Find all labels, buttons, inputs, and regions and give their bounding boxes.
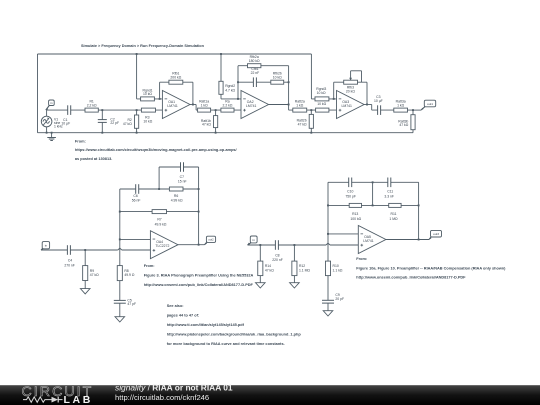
svg-text:10 kΩ: 10 kΩ	[143, 92, 152, 96]
svg-text:out1: out1	[427, 102, 433, 106]
svg-text:1.1 MΩ: 1.1 MΩ	[299, 268, 310, 272]
svg-text:10 kΩ: 10 kΩ	[317, 102, 326, 106]
svg-text:for more background to RIAA cu: for more background to RIAA curve and re…	[167, 342, 285, 346]
svg-text:47 kΩ: 47 kΩ	[123, 122, 132, 126]
svg-text:1 kΩ: 1 kΩ	[201, 103, 209, 107]
svg-text:signality / RIAA or not RIAA 0: signality / RIAA or not RIAA 01	[115, 383, 233, 393]
svg-text:C11: C11	[387, 190, 393, 194]
svg-text:3.3 nF: 3.3 nF	[384, 195, 394, 199]
svg-text:10 kΩ: 10 kΩ	[317, 91, 326, 95]
svg-text:200 kΩ: 200 kΩ	[170, 75, 181, 79]
svg-text:http://www.onsemi.com/pub_link: http://www.onsemi.com/pub_link/Collatera…	[356, 276, 466, 280]
svg-text:R11: R11	[391, 212, 397, 216]
svg-text:Figure 3. RIAA Phonograph Prea: Figure 3. RIAA Phonograph Preamplifier U…	[144, 273, 254, 277]
svg-text:R7: R7	[157, 217, 161, 221]
svg-text:Figure 10a. Figure 10. Preampl: Figure 10a. Figure 10. Preamplifier -- R…	[356, 266, 506, 270]
svg-text:TLC2272: TLC2272	[155, 244, 169, 248]
svg-text:49.9 Ω: 49.9 Ω	[124, 273, 135, 277]
svg-text:in: in	[50, 101, 53, 105]
svg-text:LM741: LM741	[342, 104, 352, 108]
svg-text:47 pF: 47 pF	[127, 302, 136, 306]
svg-text:270 nF: 270 nF	[64, 263, 75, 267]
svg-text:56 nF: 56 nF	[132, 199, 141, 203]
svg-text:10 kΩ: 10 kΩ	[273, 75, 282, 79]
svg-text:4.7 kΩ: 4.7 kΩ	[225, 88, 235, 92]
svg-text:1 MΩ: 1 MΩ	[389, 217, 398, 221]
svg-text:1 kΩ: 1 kΩ	[397, 103, 405, 107]
svg-text:180 kΩ: 180 kΩ	[249, 59, 260, 63]
svg-text:http://circuitlab.com/cknf246: http://circuitlab.com/cknf246	[115, 393, 209, 402]
svg-text:4.99 kΩ: 4.99 kΩ	[171, 199, 183, 203]
svg-text:LM741: LM741	[167, 104, 177, 108]
svg-text:LAB: LAB	[64, 394, 93, 405]
svg-text:22 pF: 22 pF	[110, 121, 119, 125]
svg-text:2.2 kΩ: 2.2 kΩ	[223, 103, 233, 107]
svg-text:R13: R13	[352, 212, 358, 216]
svg-text:From:: From:	[75, 139, 86, 143]
svg-text:LM741: LM741	[246, 104, 256, 108]
svg-text:47 kΩ: 47 kΩ	[202, 123, 211, 127]
svg-text:LM741: LM741	[363, 239, 373, 243]
svg-text:C6: C6	[133, 194, 137, 198]
svg-text:C7: C7	[180, 175, 184, 179]
svg-text:From:: From:	[144, 264, 155, 268]
svg-text:1.1 kΩ: 1.1 kΩ	[333, 268, 343, 272]
svg-text:C10: C10	[347, 190, 353, 194]
svg-text:15 nF: 15 nF	[178, 179, 187, 183]
svg-text:220 nF: 220 nF	[272, 258, 283, 262]
svg-text:http://www.onsemi.com/pub_link: http://www.onsemi.com/pub_link/Collatera…	[144, 283, 254, 287]
svg-text:750 pF: 750 pF	[345, 195, 356, 199]
svg-text:2.2 kΩ: 2.2 kΩ	[87, 103, 97, 107]
svg-text:1 kΩ: 1 kΩ	[296, 103, 304, 107]
svg-text:22 nF: 22 nF	[251, 71, 260, 75]
svg-text:R6: R6	[174, 194, 178, 198]
svg-text:http://www.ti.com/lit/an/slyt1: http://www.ti.com/lit/an/slyt145/slyt145…	[167, 323, 245, 327]
svg-text:47 kΩ: 47 kΩ	[399, 123, 408, 127]
svg-text:47 kΩ: 47 kΩ	[265, 268, 274, 272]
svg-text:Simulate > Frequency Domain >: Simulate > Frequency Domain > Run Freque…	[81, 44, 205, 48]
svg-text:20 pF: 20 pF	[335, 297, 344, 301]
svg-text:10 µF: 10 µF	[61, 121, 70, 125]
svg-text:in: in	[45, 244, 48, 248]
svg-text:47 kΩ: 47 kΩ	[90, 273, 99, 277]
svg-text:See also:: See also:	[167, 304, 184, 308]
svg-text:49.9 kΩ: 49.9 kΩ	[155, 222, 167, 226]
svg-text:in: in	[252, 238, 255, 242]
svg-text:10 µF: 10 µF	[374, 99, 383, 103]
svg-text:From:: From:	[356, 257, 367, 261]
svg-text:out3: out3	[433, 232, 439, 236]
svg-text:C8: C8	[275, 253, 279, 257]
svg-text:20 kΩ: 20 kΩ	[346, 89, 355, 93]
svg-text:pages 44 to 47 of:: pages 44 to 47 of:	[167, 314, 199, 318]
svg-text:http://www.platenspeler.com/ba: http://www.platenspeler.com/background/r…	[167, 332, 302, 336]
svg-text:100 kΩ: 100 kΩ	[350, 217, 361, 221]
svg-text:47 kΩ: 47 kΩ	[298, 122, 307, 126]
svg-text:https://www.circuitlab.com/cir: https://www.circuitlab.com/circuit/wsqm3…	[75, 148, 238, 152]
svg-text:out2: out2	[208, 238, 214, 242]
svg-text:C4: C4	[68, 259, 72, 263]
svg-text:as posted at 130813.: as posted at 130813.	[75, 157, 112, 161]
svg-text:10 kΩ: 10 kΩ	[143, 120, 152, 124]
